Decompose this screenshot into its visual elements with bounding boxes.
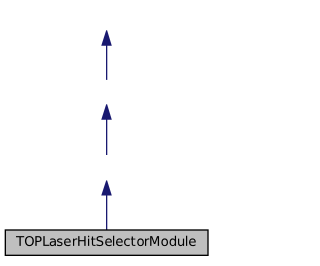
node TOPLaserHitSelectorModule (class box) [5,230,208,255]
wire arrow 3 (bottom inheritance edge) [101,180,112,229]
inheritance graph: TOPLaserHitSelectorModule [0,0,213,261]
wire arrow 1 (top inheritance edge) [101,30,112,80]
wire arrow 2 (middle inheritance edge) [101,104,112,155]
label TOPLaserHitSelectorModule (text outlines) [16,236,196,246]
